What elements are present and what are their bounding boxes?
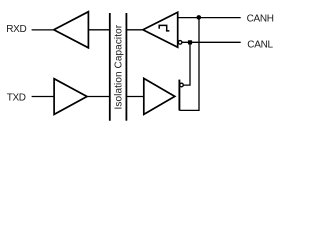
op-amp U4 CAN driver (points right) (144, 78, 175, 114)
filter pulse symbol inside U3 (159, 25, 169, 31)
capacitor C1 left plate (109, 13, 111, 121)
svg-text:CANH: CANH (247, 14, 274, 25)
junction node on CANH (197, 15, 202, 20)
capacitor C1 right plate (125, 13, 127, 121)
wire CANL vertical down to driver U4 bubble output (184, 42, 191, 85)
wire net CANL horizontal (182, 41, 241, 43)
junction node on CANL (188, 40, 192, 44)
wire CANH vertical down to driver U4 output (179, 18, 199, 111)
svg-text:CANL: CANL (247, 39, 273, 50)
op-amp U1 receiver buffer (points left) (54, 12, 89, 48)
wire U2 to isolation capacitor left plate (87, 96, 110, 98)
wire net CANH horizontal (178, 17, 241, 19)
wire capacitor right plate to receiver U3 (127, 29, 144, 31)
wire U1 to isolation capacitor left plate (88, 29, 109, 31)
output bar of U4 (178, 80, 180, 111)
wire capacitor right plate to driver U4 (127, 96, 144, 98)
svg-text:RXD: RXD (6, 24, 26, 35)
inverting bubble on U3 CANL input (178, 41, 182, 45)
op-amp U2 driver buffer (points right) (54, 79, 87, 115)
wire TXD to driver U2 (32, 96, 55, 98)
inverting bubble on U4 CANL output (180, 83, 184, 87)
op-amp U3 CAN receiver (points left) (143, 12, 178, 47)
wire RXD to receiver U1 (32, 29, 54, 31)
svg-text:Isolation Capacitor: Isolation Capacitor (113, 24, 124, 109)
svg-text:TXD: TXD (7, 92, 26, 103)
